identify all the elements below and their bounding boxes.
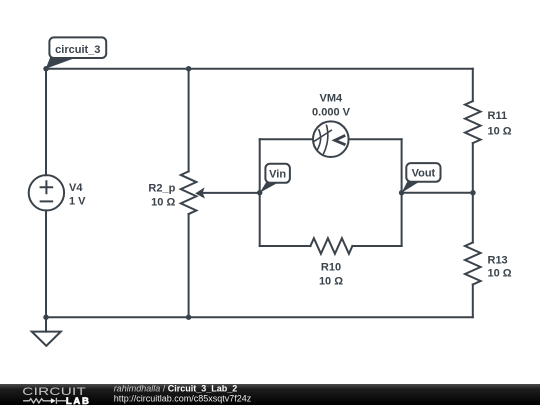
svg-text:10 Ω: 10 Ω (488, 125, 512, 137)
svg-text:R13: R13 (488, 254, 508, 266)
svg-text:10 Ω: 10 Ω (151, 197, 175, 209)
svg-text:LAB: LAB (66, 396, 91, 405)
svg-text:R10: R10 (321, 261, 341, 273)
svg-text:rahimdhalla / Circuit_3_Lab_2: rahimdhalla / Circuit_3_Lab_2 (114, 383, 238, 393)
svg-text:VM4: VM4 (319, 92, 343, 104)
svg-text:1 V: 1 V (69, 195, 86, 207)
svg-text:R2_p: R2_p (148, 182, 175, 194)
svg-text:R11: R11 (488, 110, 508, 122)
svg-text:0.000 V: 0.000 V (312, 107, 351, 119)
svg-text:Vin: Vin (269, 168, 286, 180)
svg-text:circuit_3: circuit_3 (55, 44, 100, 56)
svg-text:10 Ω: 10 Ω (488, 268, 512, 280)
svg-text:10 Ω: 10 Ω (319, 276, 343, 288)
svg-text:V4: V4 (69, 182, 83, 194)
svg-text:http://circuitlab.com/c85xsqtv: http://circuitlab.com/c85xsqtv7f24z (114, 393, 252, 403)
svg-text:Vout: Vout (412, 167, 436, 179)
